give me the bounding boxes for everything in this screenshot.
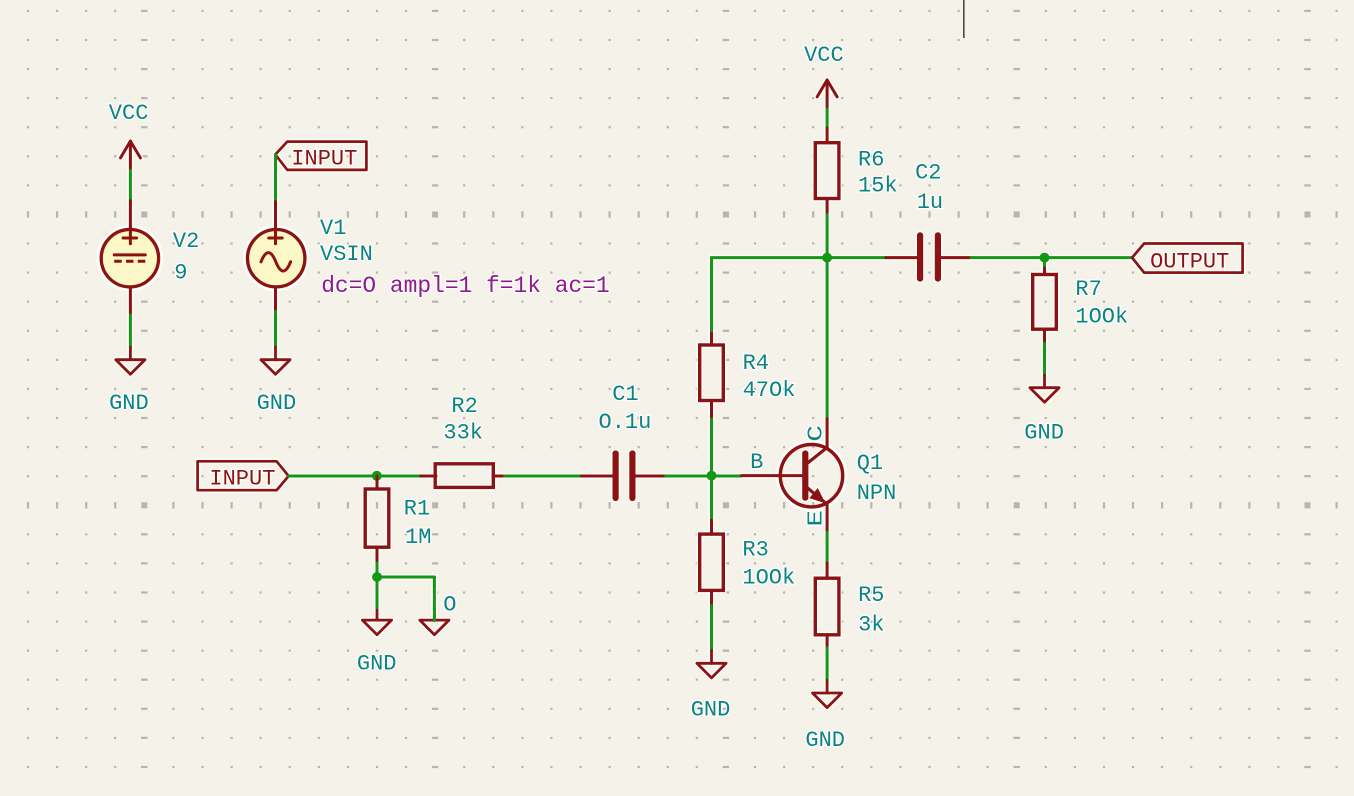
wire INPUT label to V1: [274, 155, 277, 202]
capacitor C2: [886, 235, 971, 278]
resistor R1: [365, 476, 389, 563]
svg-text:1OOk: 1OOk: [742, 565, 795, 590]
svg-text:V1: V1: [320, 216, 346, 241]
reference R6: [858, 148, 884, 173]
wire node B up to R4: [710, 417, 713, 476]
ground GND (below R1): [357, 608, 397, 677]
svg-text:9: 9: [174, 260, 187, 285]
svg-text:INPUT: INPUT: [291, 147, 357, 172]
value 1M: [405, 525, 431, 550]
svg-text:dc=O ampl=1 f=1k ac=1: dc=O ampl=1 f=1k ac=1: [321, 273, 609, 299]
svg-text:O.1u: O.1u: [599, 410, 652, 435]
svg-text:R5: R5: [858, 583, 884, 608]
wire V2 to GND: [129, 315, 132, 347]
wire C1 to node B: [666, 475, 742, 478]
wire junction to R7: [1043, 258, 1046, 268]
svg-text:C: C: [806, 425, 829, 442]
wire V1 to GND: [274, 311, 277, 347]
svg-text:R2: R2: [451, 394, 477, 419]
reference R4: [743, 351, 769, 376]
wire R2 to C1: [505, 475, 582, 478]
wire node B down to R3: [710, 476, 713, 521]
wire R5 to GND: [826, 648, 829, 681]
svg-text:GND: GND: [691, 697, 731, 722]
ground GND (below R7): [1024, 375, 1064, 446]
wire R4 up to top rail corner: [710, 258, 713, 331]
svg-text:INPUT: INPUT: [209, 466, 275, 491]
value 0.1u: [599, 410, 652, 435]
svg-text:GND: GND: [805, 728, 845, 753]
svg-text:O: O: [443, 593, 456, 618]
power symbol VCC (top rail): [804, 43, 844, 109]
svg-text:GND: GND: [357, 652, 397, 677]
wire emitter to R5: [826, 532, 829, 563]
resistor R3: [700, 520, 724, 606]
svg-text:33k: 33k: [443, 420, 483, 445]
wire VCC to R6: [826, 109, 829, 128]
svg-text:R3: R3: [742, 538, 768, 563]
voltage source V1: [248, 202, 305, 312]
reference C2: [915, 161, 941, 186]
wire R3 to GND: [710, 606, 713, 651]
svg-text:E: E: [806, 510, 829, 527]
svg-text:V2: V2: [173, 229, 199, 254]
reference V2: [173, 229, 199, 254]
ground GND (below R5): [805, 680, 845, 752]
reference C1: [612, 382, 638, 407]
reference R2: [451, 394, 477, 419]
resistor R4: [700, 331, 724, 417]
wire R1 to lower junction: [376, 563, 379, 577]
reference R1: [404, 496, 430, 521]
ground GND (below V2): [109, 347, 149, 416]
sheet frame edge line: [963, 0, 965, 38]
value 9 of V2: [174, 260, 187, 285]
reference R7: [1075, 277, 1101, 302]
svg-text:1OOk: 1OOk: [1075, 305, 1128, 330]
svg-text:Q1: Q1: [857, 451, 883, 476]
svg-text:VSIN: VSIN: [320, 242, 373, 267]
junction node B: [707, 471, 717, 481]
reference R5: [858, 583, 884, 608]
wire R6 to top rail junction: [826, 215, 829, 258]
value 1u: [917, 190, 943, 215]
wire R7 to GND: [1043, 343, 1046, 375]
pin label C: [806, 425, 829, 442]
svg-text:VCC: VCC: [109, 101, 149, 126]
wire junction to 0-net corner: [377, 576, 434, 579]
wire INPUT label to R2: [289, 475, 421, 478]
svg-text:GND: GND: [109, 391, 149, 416]
resistor R6: [815, 128, 839, 215]
svg-text:R4: R4: [743, 351, 769, 376]
power symbol VCC (top of V2): [109, 101, 149, 170]
resistor R7: [1033, 268, 1057, 343]
ground GND (below R3): [691, 651, 731, 723]
global label OUTPUT: [1132, 244, 1243, 275]
wire collector: [826, 258, 829, 419]
reference Q1: [857, 451, 883, 476]
global label INPUT (at V1): [275, 142, 366, 172]
value 100k (R3): [742, 565, 795, 590]
svg-text:VCC: VCC: [804, 43, 844, 68]
pin label E: [806, 510, 829, 527]
transistor Q1: [741, 419, 842, 533]
junction top rail at collector column: [822, 253, 832, 263]
value NPN: [857, 481, 897, 506]
svg-text:C2: C2: [915, 161, 941, 186]
svg-text:1M: 1M: [405, 525, 431, 550]
wire corner down to 0 ground: [433, 577, 436, 621]
svg-text:NPN: NPN: [857, 481, 897, 506]
global label INPUT (input net): [198, 461, 289, 491]
junction at R1 bottom: [372, 572, 382, 582]
svg-text:R6: R6: [858, 148, 884, 173]
resistor R5: [815, 563, 839, 648]
value 470k: [743, 378, 796, 403]
value VSIN of V1: [320, 242, 373, 267]
capacitor C1: [581, 454, 665, 499]
svg-text:GND: GND: [257, 391, 297, 416]
spice params dc=0 ampl=1 f=1k ac=1: [321, 273, 609, 299]
svg-text:GND: GND: [1024, 421, 1064, 446]
ground GND (below V1): [257, 347, 297, 416]
wire VCC to V2 plus pin: [129, 170, 132, 200]
junction at R1 top: [372, 471, 382, 481]
voltage source V2: [101, 201, 158, 315]
svg-text:R7: R7: [1075, 277, 1101, 302]
wire R1 junction to its ground: [376, 577, 379, 608]
svg-text:B: B: [750, 450, 763, 475]
value 15k: [858, 174, 898, 199]
power symbol 0 (spice ground): [420, 593, 457, 635]
svg-text:C1: C1: [612, 382, 638, 407]
value 100k (R7): [1075, 305, 1128, 330]
svg-text:OUTPUT: OUTPUT: [1150, 249, 1229, 274]
svg-text:R1: R1: [404, 496, 430, 521]
svg-text:15k: 15k: [858, 174, 898, 199]
svg-text:1u: 1u: [917, 190, 943, 215]
junction at R7 top: [1040, 253, 1050, 263]
wire top rail: [712, 256, 886, 259]
value 3k: [858, 613, 884, 638]
wire C2 to OUTPUT: [971, 256, 1132, 259]
reference R3: [742, 538, 768, 563]
label B: [750, 450, 763, 475]
svg-text:3k: 3k: [858, 613, 884, 638]
reference V1: [320, 216, 346, 241]
resistor R2: [421, 464, 505, 488]
svg-text:47Ok: 47Ok: [743, 378, 796, 403]
value 33k: [443, 420, 483, 445]
